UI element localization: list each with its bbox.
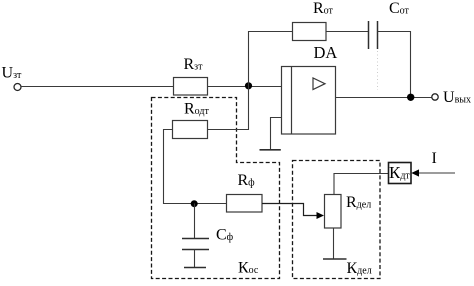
label Cф: [216, 227, 234, 244]
label Rзт: [184, 56, 204, 73]
node output junction dot: [407, 94, 414, 101]
ground op-amp: [260, 149, 281, 151]
svg-text:I: I: [432, 150, 437, 167]
wire node A down to Rодт: [208, 87, 249, 130]
wire Cот to output node: [378, 32, 411, 98]
wire input to Rзт: [21, 86, 173, 88]
node B junction dot: [191, 200, 198, 207]
op-amp DA: [282, 67, 336, 135]
label Kос: [238, 260, 259, 277]
wire Rодт left down to node B: [164, 130, 227, 204]
label Rот: [313, 0, 334, 17]
wire Rдел top to Kдт: [334, 174, 389, 195]
wire node A up to feedback: [249, 32, 293, 87]
terminal Uвых: [432, 94, 438, 100]
label DA: [314, 43, 338, 62]
capacitor Cот: [369, 21, 378, 49]
svg-text:DA: DA: [314, 43, 338, 62]
wire node B down to Cф: [194, 204, 196, 239]
terminal Uзт: [14, 84, 21, 91]
block Kдт: [389, 163, 412, 184]
label Rдел: [346, 194, 371, 211]
wire Rдел bottom to ground: [333, 228, 335, 259]
arrowhead into Kдт: [411, 169, 419, 176]
capacitor Cф: [182, 239, 209, 250]
dashed box Kос: [152, 98, 280, 279]
wire Rф to Rдел with step: [262, 204, 317, 216]
resistor Rзт: [174, 78, 208, 96]
potentiometer Rдел: [325, 195, 342, 229]
wire current input I: [419, 172, 455, 174]
ground Rдел: [323, 258, 347, 260]
ground Cф: [184, 267, 206, 269]
label Kдт: [389, 163, 410, 182]
label Uзт: [2, 65, 23, 82]
node A junction dot: [245, 82, 252, 89]
label I: [432, 150, 437, 167]
label Uвых: [443, 89, 471, 106]
label Rф: [238, 172, 256, 189]
dashed box Kдел: [293, 161, 381, 279]
wire Cф to ground: [194, 250, 196, 268]
resistor Rодт: [173, 121, 208, 139]
arrowhead into Rдел: [317, 212, 325, 219]
wire Rзт to node A and op-amp: [208, 86, 282, 88]
label Kдел: [347, 260, 372, 277]
wire Rот to Cот: [326, 31, 368, 33]
label Rодт: [184, 101, 209, 118]
label Cот: [389, 0, 410, 17]
faint dotted mark under Cот: [377, 51, 379, 90]
resistor Rф: [227, 195, 263, 213]
resistor Rот: [293, 23, 327, 41]
wire non-inverting input to ground: [271, 118, 282, 150]
wire op-amp output: [336, 97, 432, 99]
